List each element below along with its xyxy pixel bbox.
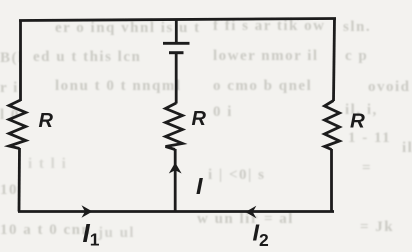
svg-text:c p: c p bbox=[345, 48, 368, 64]
svg-text:i | <0| s: i | <0| s bbox=[208, 167, 265, 183]
arrowhead current I2 (left, on bottom wire) bbox=[245, 206, 256, 219]
svg-text:i t l i: i t l i bbox=[28, 156, 67, 172]
svg-text:ju ul: ju ul bbox=[97, 225, 135, 241]
wire right vertical upper bbox=[334, 18, 335, 102]
resistor R3 (right) zigzag bbox=[325, 101, 340, 150]
svg-text:=: = bbox=[362, 160, 372, 176]
arrowhead current I (up, on middle wire) bbox=[169, 163, 182, 174]
wire bottom horizontal bbox=[18, 210, 334, 213]
battery short plate bbox=[169, 51, 184, 54]
wire middle vertical (battery to resistor) bbox=[175, 53, 178, 104]
wire middle vertical lower bbox=[174, 149, 177, 212]
svg-text:er o inq vhnl is u t: er o inq vhnl is u t bbox=[55, 20, 201, 36]
svg-text:ovoid: ovoid bbox=[368, 79, 411, 95]
svg-text:R: R bbox=[192, 108, 207, 130]
svg-text:lower nmor il: lower nmor il bbox=[213, 48, 319, 64]
resistor R1 (left) zigzag bbox=[9, 100, 26, 149]
battery long plate bbox=[163, 42, 190, 45]
svg-text:sln.: sln. bbox=[343, 19, 371, 35]
resistor R2 (middle) zigzag bbox=[166, 103, 183, 150]
svg-text:10 a t 0 cnn: 10 a t 0 cnn bbox=[0, 222, 91, 238]
svg-text:0 i: 0 i bbox=[213, 104, 233, 120]
svg-text:lonu t 0 t nnqml: lonu t 0 t nnqml bbox=[55, 78, 182, 94]
svg-text:R: R bbox=[350, 110, 365, 133]
svg-text:I: I bbox=[196, 173, 203, 199]
svg-text:R: R bbox=[39, 110, 54, 132]
wire right vertical lower bbox=[330, 149, 333, 212]
svg-text:ed u t this lcn: ed u t this lcn bbox=[33, 49, 141, 65]
svg-text:il: il bbox=[402, 140, 412, 156]
arrowhead current I1 (right, on bottom wire) bbox=[82, 205, 93, 218]
svg-text:10: 10 bbox=[0, 182, 18, 198]
svg-text:o cmo b qnel: o cmo b qnel bbox=[213, 78, 312, 94]
svg-text:= Jk: = Jk bbox=[360, 219, 394, 235]
wire top horizontal bbox=[19, 19, 336, 21]
wire left vertical upper bbox=[19, 20, 22, 102]
wire left vertical lower bbox=[18, 148, 21, 212]
svg-text:w un lir = al: w un lir = al bbox=[197, 211, 294, 227]
svg-text:r i: r i bbox=[0, 80, 19, 96]
wire middle vertical upper (top wire to battery) bbox=[175, 19, 178, 45]
